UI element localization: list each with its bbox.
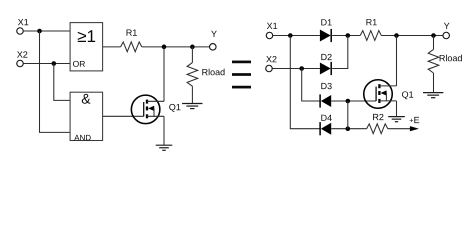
resistor R1 (left) [121,30,142,52]
junction Rload node (right) [431,33,436,38]
wire OR output to R1 [103,46,121,48]
wire drain rail [163,47,165,101]
wire X2 down to D3 [302,69,320,102]
output terminal Y (right) [443,23,450,39]
wire D2 cathode up to node A [331,36,348,69]
diode D3 (points left) [320,83,332,108]
wire source rail to ground (right) [396,101,398,117]
wire R2 to supply [388,128,411,130]
junction node A [346,33,351,38]
input terminal X1 (left) [17,19,29,34]
resistor R1 (right) [360,19,381,40]
OR gate [70,23,103,71]
wire Rload top (right) [433,36,435,50]
output terminal Y (left) [210,31,217,50]
input terminal X2 (right) [266,56,277,72]
wire Rload top [191,47,193,63]
transistor Q1 (right MOSFET) [364,80,413,109]
wire X1 down to AND input B [40,31,71,132]
diode D1 [320,19,332,42]
wire X2 down to AND input A [54,64,70,101]
resistor R2 [367,114,388,134]
ground under Q1 (right) [388,117,405,122]
wire D1 cathode to node A [331,35,360,37]
junction on X1 wire (right) [288,33,293,38]
junction on X2 wire [52,61,57,66]
junction drain node [162,45,167,50]
wire Rload bottom [191,86,193,103]
wire source rail to ground [163,116,165,145]
ground under Rload (left) [182,104,202,109]
wire R1 to Y terminal [142,46,210,48]
ground under Rload (right) [423,93,443,98]
junction node B lower [346,126,351,131]
wire X1 down to D4 [290,36,320,129]
wire D4 anode to R2 [331,128,366,130]
wire Rload bottom (right) [433,73,435,93]
wire X2 to D2 [272,68,320,70]
wire X1 to OR gate [23,30,70,32]
diode D4 (points left) [320,115,332,136]
resistor Rload (right) [428,49,462,73]
supply +E arrow [410,117,420,131]
input terminal X2 (left) [17,51,28,66]
junction node B upper [346,99,351,104]
wire D3 anode to Q1 gate [331,100,376,102]
junction on X1 wire [37,29,42,34]
diode D2 [320,54,332,75]
AND gate [70,92,103,140]
equivalence symbol [232,61,251,89]
wire R1 to Y terminal (right) [381,35,443,37]
wire X2 to OR gate [23,63,70,65]
wire node B rail [347,101,349,129]
ground under Q1 (left) [156,145,173,150]
junction on X2 wire (right) [299,66,304,71]
resistor Rload (left) [187,63,224,87]
wire X1 to D1 [273,35,320,37]
input terminal X1 (right) [266,23,277,39]
transistor Q1 (left MOSFET) [131,95,180,124]
wire AND output to Q1 gate [103,115,144,117]
junction drain node (right) [394,33,399,38]
wire drain rail (right) [396,36,398,86]
junction Rload node [190,45,195,50]
